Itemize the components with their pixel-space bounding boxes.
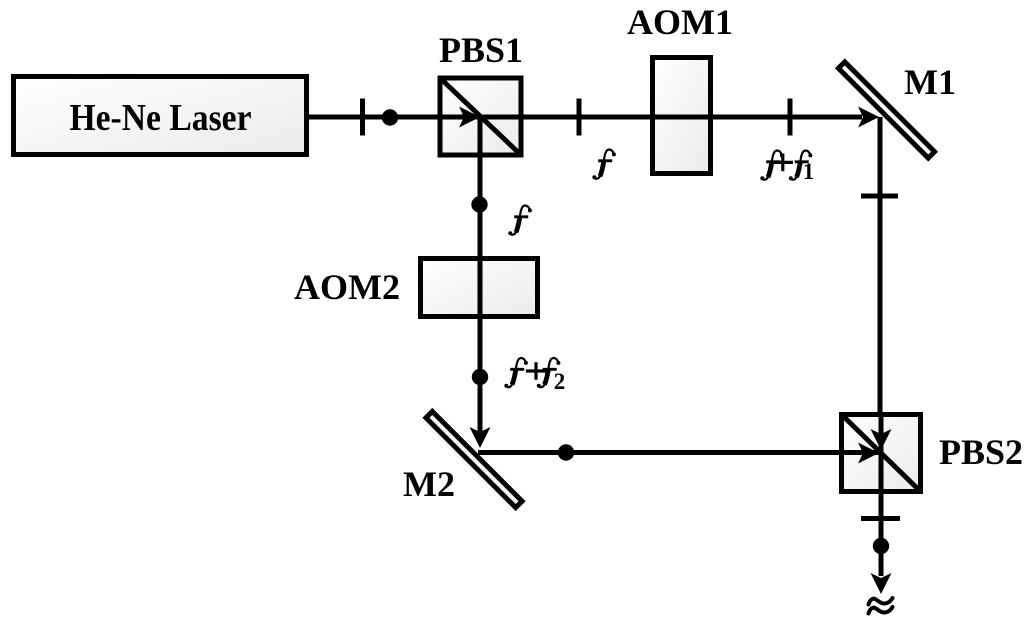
svg-text:M1: M1 xyxy=(904,62,956,102)
svg-text:PBS2: PBS2 xyxy=(939,432,1023,472)
svg-text:M2: M2 xyxy=(403,464,455,504)
svg-text:AOM1: AOM1 xyxy=(627,2,733,42)
svg-text:AOM2: AOM2 xyxy=(294,267,400,307)
svg-text:He-Ne Laser: He-Ne Laser xyxy=(70,97,252,139)
svg-text:1: 1 xyxy=(803,159,815,184)
svg-text:PBS1: PBS1 xyxy=(439,30,523,70)
svg-text:2: 2 xyxy=(554,369,566,394)
